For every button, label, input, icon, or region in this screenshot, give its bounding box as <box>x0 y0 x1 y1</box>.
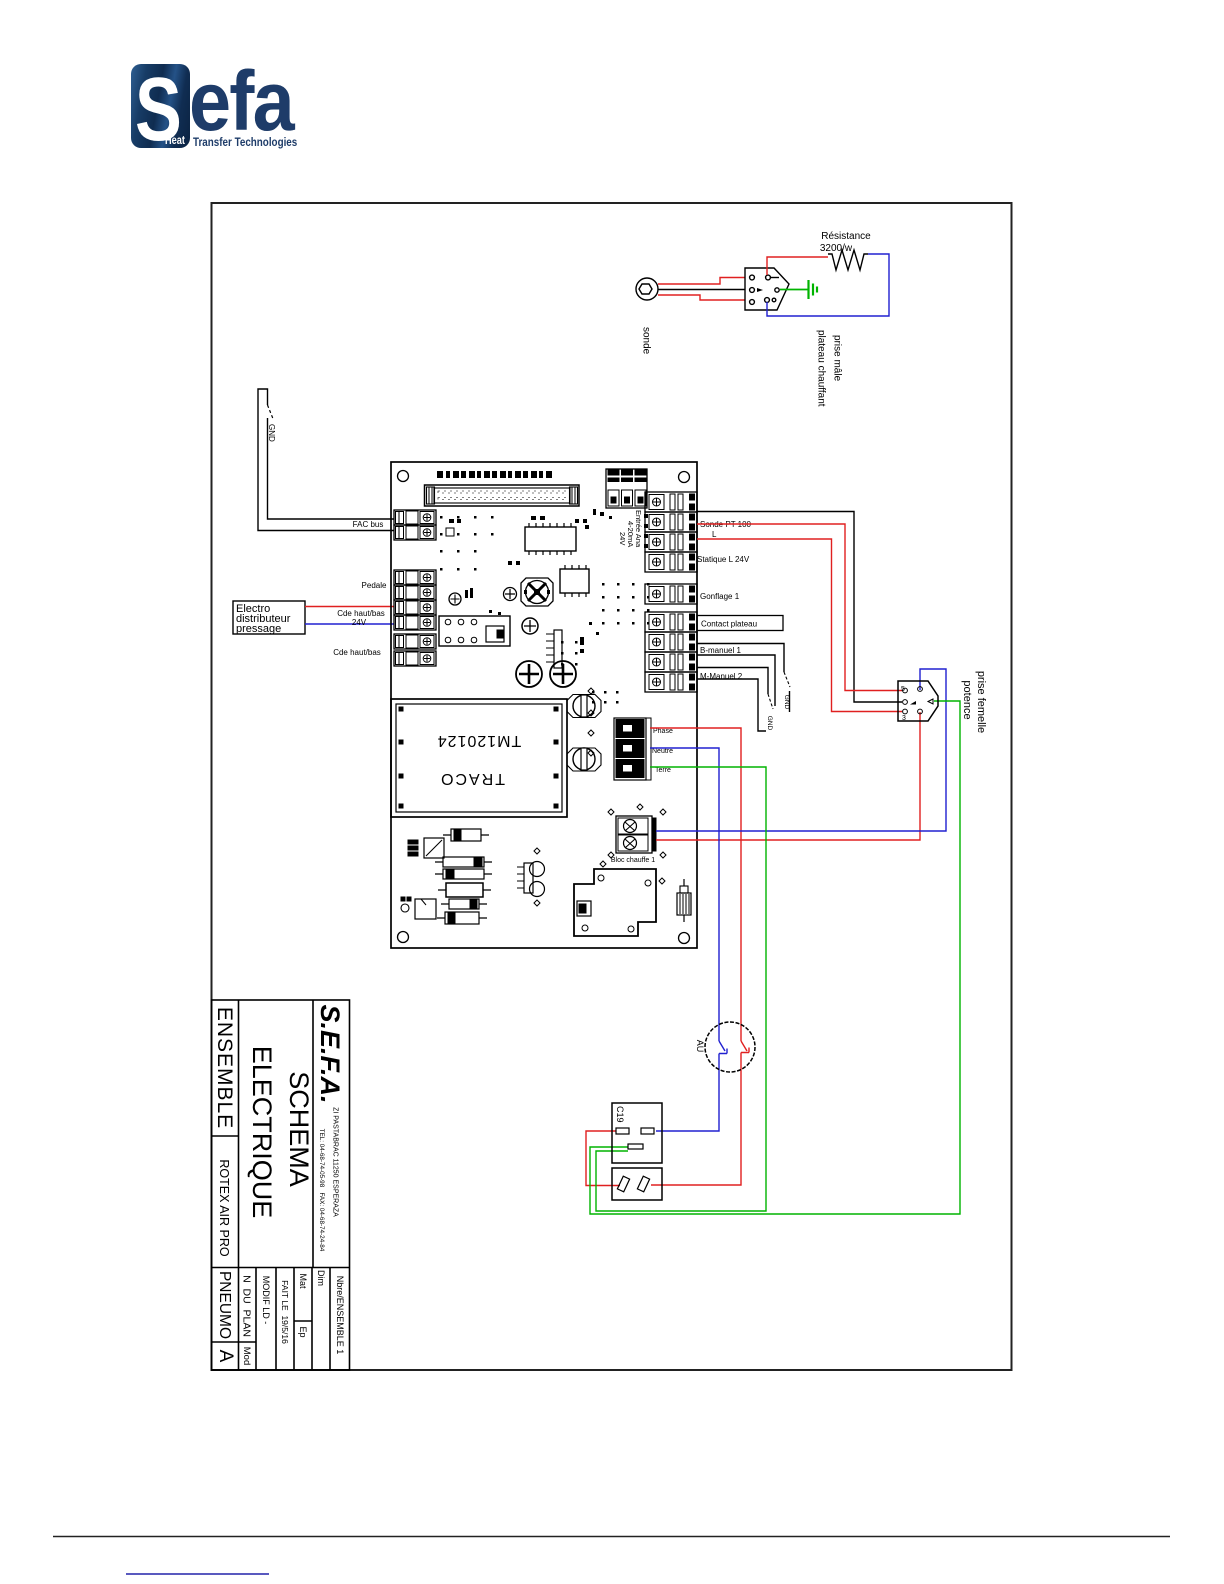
svg-text:C19: C19 <box>615 1106 625 1123</box>
svg-text:Terre: Terre <box>655 767 671 774</box>
svg-text:24V: 24V <box>352 618 367 627</box>
svg-text:Statique L 24V: Statique L 24V <box>697 555 750 564</box>
svg-text:N DU PLAN: N DU PLAN <box>241 1275 253 1337</box>
svg-text:3200/w: 3200/w <box>820 243 853 254</box>
svg-text:Résistance: Résistance <box>821 231 871 242</box>
svg-text:S.E.F.A.: S.E.F.A. <box>315 1004 345 1103</box>
svg-text:TM120124: TM120124 <box>437 732 522 749</box>
svg-text:B-manuel 1: B-manuel 1 <box>700 646 741 655</box>
svg-text:prise mâle: prise mâle <box>832 335 843 382</box>
svg-text:L: L <box>712 530 717 539</box>
svg-text:GND: GND <box>783 695 790 710</box>
svg-text:PNEUMO: PNEUMO <box>216 1271 233 1339</box>
svg-text:SCHEMA: SCHEMA <box>284 1071 314 1187</box>
svg-text:pressage: pressage <box>236 623 281 635</box>
svg-text:24V: 24V <box>618 532 627 545</box>
svg-text:Bloc chauffe 1: Bloc chauffe 1 <box>611 857 655 864</box>
svg-text:Cde haut/bas: Cde haut/bas <box>337 609 385 618</box>
svg-text:FAC bus: FAC bus <box>353 520 384 529</box>
svg-text:prise femelle: prise femelle <box>975 671 987 733</box>
svg-text:ROTEX AIR PRO: ROTEX AIR PRO <box>217 1159 231 1257</box>
svg-text:Phase: Phase <box>653 728 673 735</box>
svg-text:GND: GND <box>766 716 773 731</box>
svg-text:Mat: Mat <box>298 1273 308 1289</box>
svg-text:Contact plateau: Contact plateau <box>701 620 757 629</box>
svg-text:Cde haut/bas: Cde haut/bas <box>333 648 381 657</box>
svg-text:A: A <box>215 1350 236 1363</box>
svg-text:3: 3 <box>902 715 906 722</box>
svg-text:Mod: Mod <box>241 1347 252 1365</box>
svg-text:ENSEMBLE: ENSEMBLE <box>213 1007 236 1129</box>
svg-text:Pedale: Pedale <box>362 581 387 590</box>
svg-text:plateau chauffant: plateau chauffant <box>816 330 827 407</box>
svg-text:ELECTRIQUE: ELECTRIQUE <box>247 1046 277 1219</box>
svg-text:TEL: 04-68-74-05-98 FAX: 04-: TEL: 04-68-74-05-98 FAX: 04-68-74-24-84 <box>318 1129 325 1252</box>
svg-text:Neutre: Neutre <box>652 748 673 755</box>
svg-text:MODIF LD -: MODIF LD - <box>261 1276 271 1325</box>
svg-text:ZI PASTABRAC 11250 ESPERAZA: ZI PASTABRAC 11250 ESPERAZA <box>332 1107 339 1217</box>
svg-text:potence: potence <box>961 680 973 719</box>
svg-text:FAIT LE 19/5/16: FAIT LE 19/5/16 <box>280 1280 290 1344</box>
svg-text:Gonflage 1: Gonflage 1 <box>700 592 740 601</box>
svg-text:sonde: sonde <box>641 327 652 355</box>
svg-text:AU: AU <box>695 1040 705 1053</box>
svg-text:Ep: Ep <box>298 1326 308 1337</box>
svg-text:Dim: Dim <box>316 1270 326 1286</box>
svg-text:Nbre/ENSEMBLE 1: Nbre/ENSEMBLE 1 <box>335 1276 345 1355</box>
svg-text:GND: GND <box>267 424 276 442</box>
svg-text:TRACO: TRACO <box>439 770 505 787</box>
